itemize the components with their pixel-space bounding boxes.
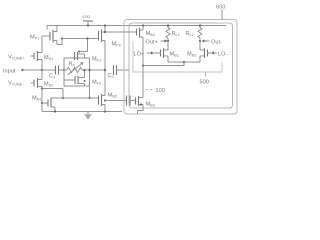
transistor MB4 xyxy=(137,24,145,37)
wire tail down-left xyxy=(143,62,184,66)
capacitor C1 xyxy=(56,66,65,75)
transistor MP1 xyxy=(42,26,63,53)
wire LO+ arrow xyxy=(147,52,152,54)
svg-text:VTUNE+: VTUNE+ xyxy=(8,55,25,61)
wire Out- arrow xyxy=(204,40,210,42)
svg-text:600: 600 xyxy=(216,5,225,11)
transistor MP2 xyxy=(99,24,107,42)
wire node A to MP2 gate xyxy=(62,38,99,40)
wire MN2 gate line xyxy=(63,97,99,99)
wire MS2 source to MN1 drain xyxy=(42,89,63,99)
svg-text:MP1: MP1 xyxy=(30,35,39,41)
svg-text:MB3: MB3 xyxy=(146,102,155,108)
resistor RL1 xyxy=(166,24,170,42)
transistor MS1 (Vtune+ switch) xyxy=(31,51,43,70)
wire feedback box frame xyxy=(64,58,90,98)
svg-text:LO+: LO+ xyxy=(134,52,145,58)
label 500 leader xyxy=(205,72,207,77)
wire MN1 gate lead xyxy=(42,102,48,104)
power VDD symbol xyxy=(82,14,93,27)
ground symbol xyxy=(85,112,92,119)
wire tail bar xyxy=(168,61,200,63)
transistor MB1 xyxy=(157,41,168,62)
capacitor C3 xyxy=(127,96,136,106)
node Input terminal xyxy=(21,69,23,71)
node ground rail xyxy=(42,111,122,113)
wire Out+ arrow xyxy=(161,40,166,42)
svg-text:VTUNE-: VTUNE- xyxy=(8,81,24,87)
box 500 xyxy=(133,41,222,72)
box inner xyxy=(129,23,233,108)
transistor MF1 (top branch) xyxy=(75,37,89,60)
svg-text:MS1: MS1 xyxy=(44,55,53,61)
svg-text:VDD: VDD xyxy=(82,14,90,19)
wire box output down xyxy=(88,97,90,99)
svg-text:MB2: MB2 xyxy=(187,52,196,58)
svg-text:MB4: MB4 xyxy=(146,31,156,37)
svg-text:Out+: Out+ xyxy=(146,40,158,46)
wire MB4 gate line xyxy=(105,31,137,33)
wire input line xyxy=(23,69,56,71)
svg-text:RL2: RL2 xyxy=(186,31,194,37)
svg-text:MN2: MN2 xyxy=(108,93,118,99)
capacitor C2 xyxy=(114,65,130,75)
svg-text:MS2: MS2 xyxy=(44,82,53,88)
node box output xyxy=(88,69,90,71)
resistor RF (variable) xyxy=(64,63,105,76)
node MN1 gate tap xyxy=(41,102,43,104)
svg-text:Out-: Out- xyxy=(211,40,222,46)
svg-text:MP2: MP2 xyxy=(112,42,121,48)
label 100 leader xyxy=(146,89,154,91)
node input gate junction xyxy=(63,69,65,71)
wire MB4 drain down to MB3 xyxy=(142,37,144,98)
wire 600 leader xyxy=(221,10,223,20)
svg-text:LO-: LO- xyxy=(218,52,227,58)
transistor MF2 (bottom branch) xyxy=(64,69,86,86)
svg-text:C2: C2 xyxy=(108,73,114,79)
transistor MN1 xyxy=(48,98,63,112)
svg-text:Input: Input xyxy=(3,69,16,75)
node MS2 source xyxy=(41,87,43,89)
wire RF tap to C3 xyxy=(105,100,127,102)
svg-text:100: 100 xyxy=(156,88,165,94)
svg-text:500: 500 xyxy=(200,80,209,86)
transistor MN2 xyxy=(99,94,106,112)
transistor MS2 (Vtune- switch) xyxy=(31,70,43,112)
svg-text:RF: RF xyxy=(69,62,76,68)
transistor MB3 xyxy=(136,96,144,114)
transistor MB2 xyxy=(200,41,211,62)
svg-text:MB1: MB1 xyxy=(170,52,179,58)
resistor RL2 xyxy=(198,24,202,42)
box 600 outer xyxy=(124,20,237,115)
node VDD rail xyxy=(47,25,226,27)
svg-text:MF1: MF1 xyxy=(92,57,101,63)
wire stage2 output vertical xyxy=(104,41,106,96)
svg-text:RL1: RL1 xyxy=(172,31,180,37)
wire LO- arrow xyxy=(214,52,218,54)
svg-text:C1: C1 xyxy=(49,74,55,80)
svg-text:MN1: MN1 xyxy=(32,96,42,102)
svg-text:MF2: MF2 xyxy=(92,80,101,86)
